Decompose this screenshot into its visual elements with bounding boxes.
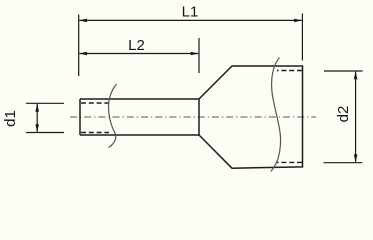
d2 arrow up <box>354 71 358 79</box>
L1 arrow right <box>294 19 302 23</box>
pin break line <box>109 84 117 148</box>
centerline (dash-dot axis) <box>70 116 316 118</box>
d2 dimension line <box>355 72 357 162</box>
svg-text:d2: d2 <box>335 106 352 123</box>
L2 extension line right <box>198 38 200 73</box>
svg-text:d1: d1 <box>2 110 19 127</box>
d1 dimension line <box>36 104 38 132</box>
collar hidden line bottom <box>277 161 302 163</box>
L2 arrow right <box>191 52 199 56</box>
svg-text:L1: L1 <box>182 4 199 21</box>
L2 dimension line <box>80 53 199 55</box>
L1 arrow left <box>79 19 87 23</box>
pin hidden bore top <box>81 102 109 104</box>
d1 extension line bottom <box>26 132 64 134</box>
L2 arrow left <box>79 52 87 56</box>
d1 extension line top <box>26 102 64 104</box>
d1 arrow up <box>35 103 39 111</box>
collar outline (insulation funnel) <box>199 66 303 168</box>
d2 extension line bottom <box>324 162 363 164</box>
d1 arrow down <box>35 124 39 132</box>
L1 extension line left <box>78 15 80 77</box>
svg-text:L2: L2 <box>128 37 145 54</box>
collar break line <box>271 58 281 172</box>
L1 extension line right <box>301 14 303 61</box>
pin hidden bore bottom <box>81 132 109 134</box>
d2 extension line top <box>324 70 363 72</box>
collar hidden line top <box>277 70 302 72</box>
pin outline (metal sleeve) <box>80 99 199 135</box>
L1 dimension line <box>80 19 302 21</box>
d2 arrow down <box>354 154 358 162</box>
